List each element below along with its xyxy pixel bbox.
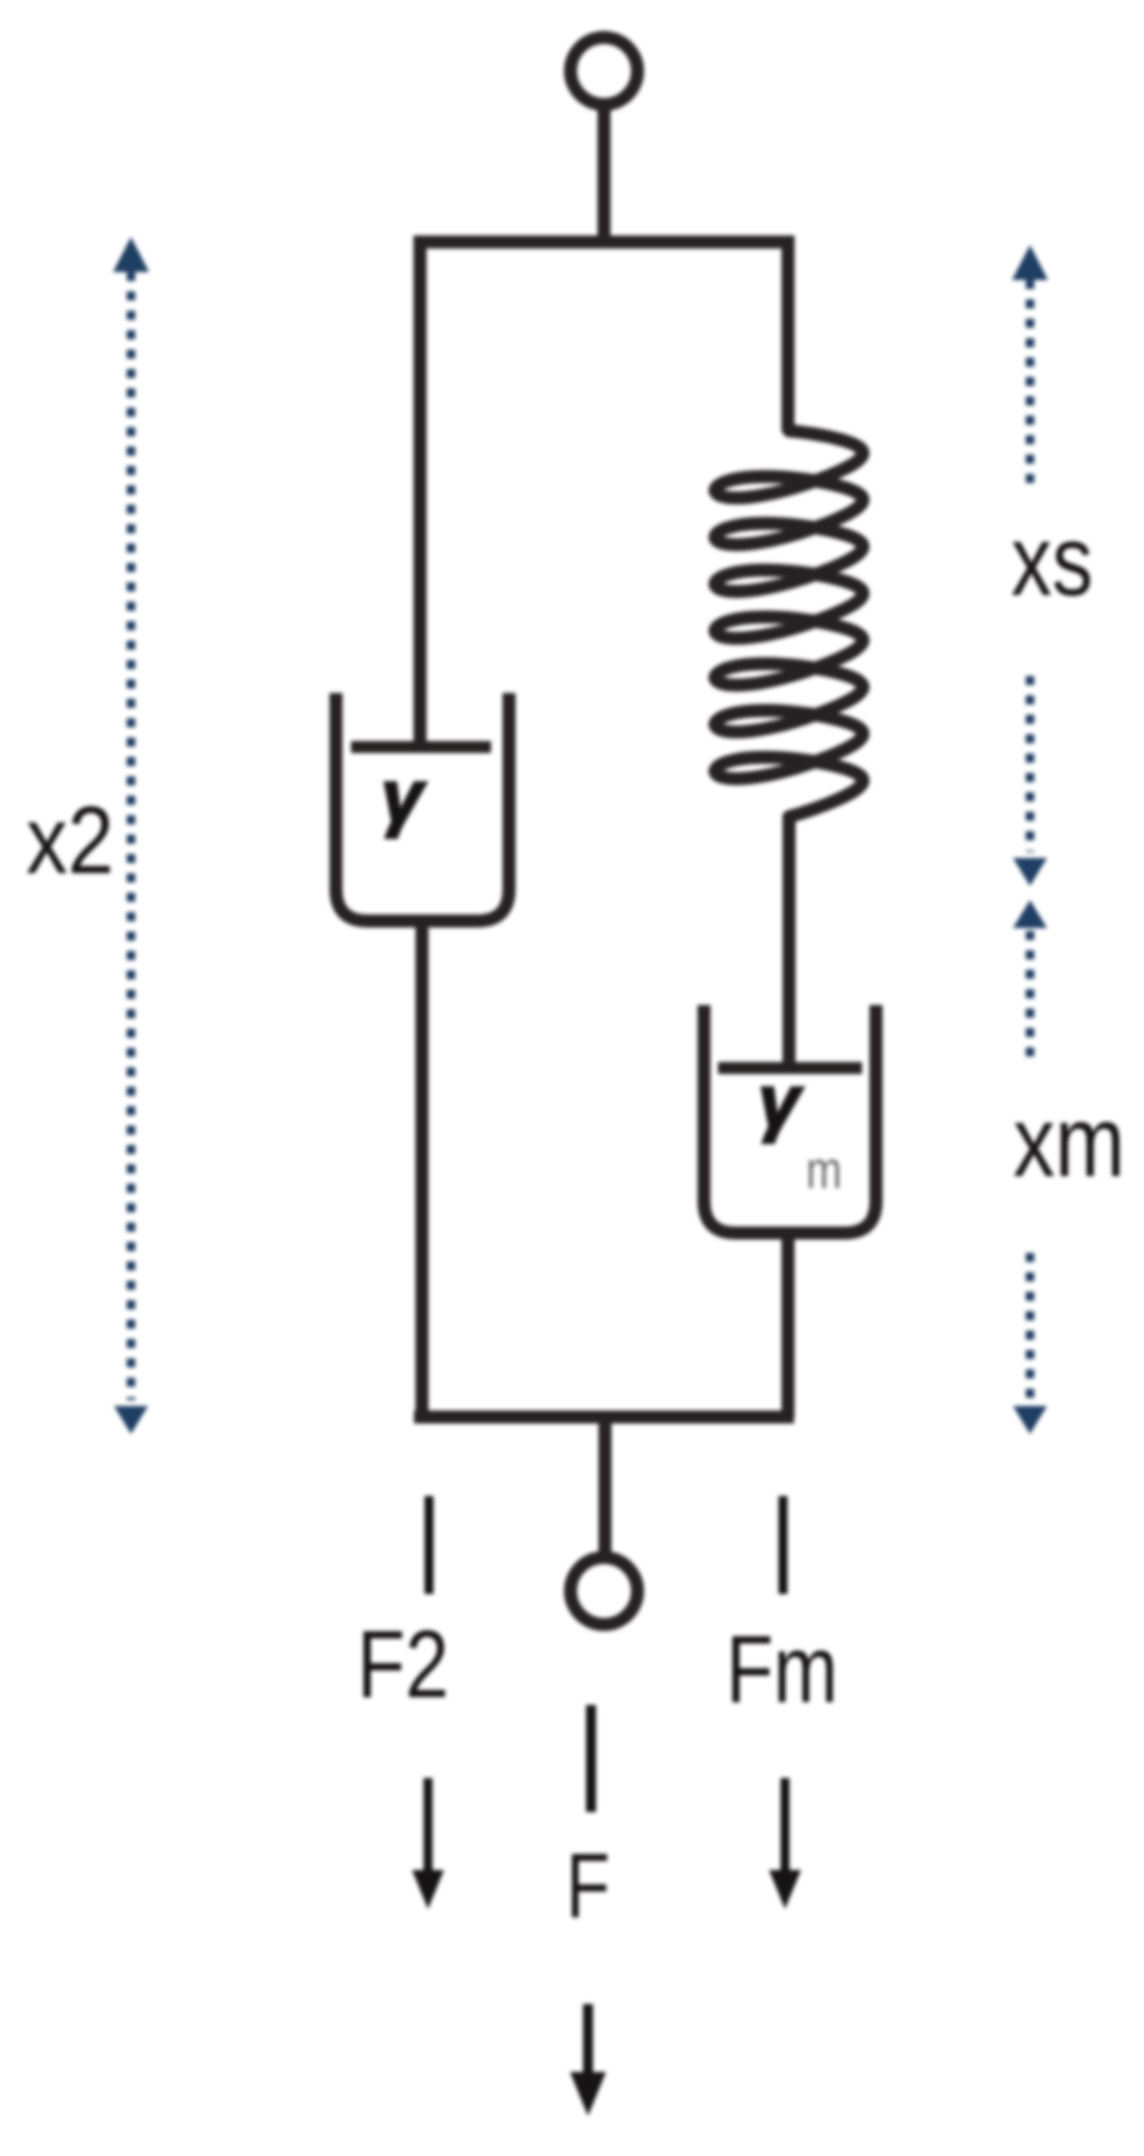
svg-text:γ: γ — [758, 1060, 803, 1143]
force arrow F2 — [424, 1778, 433, 1876]
wire: top rod from terminal to top bar — [598, 104, 611, 243]
wire: spring to right dashpot rod — [783, 815, 796, 1064]
dimension line x2 (dotted double arrow) — [127, 272, 136, 1400]
wire: left dashpot to bottom bar — [416, 921, 429, 1417]
node F2 tick — [425, 1496, 434, 1594]
svg-text:xm: xm — [1013, 1086, 1125, 1198]
dimension line xs lower segment (arrow down) — [1026, 676, 1035, 852]
force arrow F — [583, 2004, 593, 2078]
node F tick — [586, 1705, 596, 1812]
wire: bottom bar — [414, 1411, 794, 1424]
svg-text:γ: γ — [381, 755, 426, 838]
svg-text:F2: F2 — [357, 1611, 449, 1718]
dimension line xm upper segment (arrow up) — [1026, 931, 1035, 1060]
wire: top bar with left and right branch stubs — [420, 242, 788, 747]
dashpot gamma (left): cup — [336, 693, 509, 921]
bottom terminal circle — [571, 1558, 638, 1625]
node Fm tick — [779, 1496, 788, 1594]
dashpot gamma-m (right): piston plate — [718, 1062, 862, 1074]
dashpot gamma (left): piston plate — [351, 741, 491, 753]
dashpot gamma-m (right): cup — [704, 1005, 876, 1233]
wire: right dashpot to bottom bar — [782, 1233, 795, 1417]
dimension line xs upper segment (arrow up) — [1026, 280, 1035, 489]
svg-text:x2: x2 — [26, 787, 114, 894]
spring xs (coil) — [715, 431, 863, 817]
svg-text:F: F — [566, 1835, 610, 1937]
svg-text:m: m — [806, 1141, 842, 1200]
wire: bottom rod to terminal — [599, 1417, 612, 1554]
top terminal circle — [571, 38, 638, 105]
svg-text:xs: xs — [1011, 505, 1093, 617]
force arrow Fm — [781, 1778, 790, 1876]
dimension line xm lower segment (arrow down) — [1026, 1253, 1035, 1398]
svg-text:Fm: Fm — [726, 1616, 838, 1723]
